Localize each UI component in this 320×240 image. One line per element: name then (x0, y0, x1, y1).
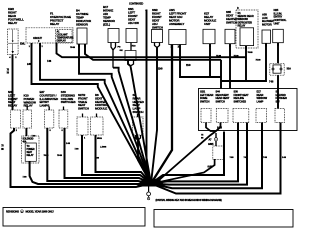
svg-text:UNIT: UNIT (274, 21, 280, 25)
svg-text:UNIT: UNIT (204, 22, 211, 26)
svg-text:MODEL YEAR 1988 ONLY: MODEL YEAR 1988 ONLY (26, 209, 55, 213)
svg-text:SWITCH: SWITCH (78, 107, 89, 111)
svg-text:MODULE: MODULE (95, 107, 107, 111)
svg-text:TO: TO (27, 146, 30, 148)
svg-text:SWITCH: SWITCH (200, 99, 210, 103)
svg-text:(EZL): (EZL) (103, 22, 110, 26)
svg-text:ASSEMBLY: ASSEMBLY (169, 22, 184, 26)
svg-text:SWITCHES: SWITCHES (234, 99, 247, 103)
svg-text:L-5008: L-5008 (100, 147, 107, 149)
svg-text:MOTOR: MOTOR (262, 22, 272, 26)
svg-text:RELAY: RELAY (24, 104, 33, 108)
svg-text:SENSOR: SENSOR (76, 22, 89, 26)
svg-text:ADJ SW: ADJ SW (128, 21, 139, 25)
svg-text:RELAY: RELAY (238, 23, 246, 27)
svg-text:LAMP: LAMP (257, 99, 264, 103)
svg-text:DISPLAY: DISPLAY (57, 39, 67, 42)
svg-text:RELAY: RELAY (8, 21, 17, 25)
svg-text:SWITCH: SWITCH (216, 99, 226, 103)
svg-text:CONTINUED: CONTINUED (129, 2, 143, 6)
svg-text:EML: EML (20, 42, 26, 46)
svg-text:SWITCHES: SWITCHES (61, 100, 76, 104)
svg-text:(PARTIAL WIRING KEY AND IN MEC: (PARTIAL WIRING KEY AND IN MECHANICS WIR… (156, 199, 222, 202)
svg-text:REVISIONS: REVISIONS (6, 209, 19, 213)
svg-text:SWITCH: SWITCH (152, 25, 163, 29)
svg-text:G805: G805 (208, 143, 214, 146)
svg-text:RELAY: RELAY (50, 22, 59, 26)
svg-text:SOLENOID: SOLENOID (23, 139, 34, 141)
svg-text:RELAY: RELAY (27, 154, 34, 157)
svg-text:PG: PG (118, 47, 121, 49)
svg-text:30A: 30A (287, 67, 292, 71)
svg-text:SEAT: SEAT (27, 151, 33, 154)
svg-text:POWER: POWER (27, 149, 35, 151)
svg-text:SWITCH: SWITCH (226, 20, 237, 24)
svg-text:LAMPS: LAMPS (40, 104, 50, 108)
